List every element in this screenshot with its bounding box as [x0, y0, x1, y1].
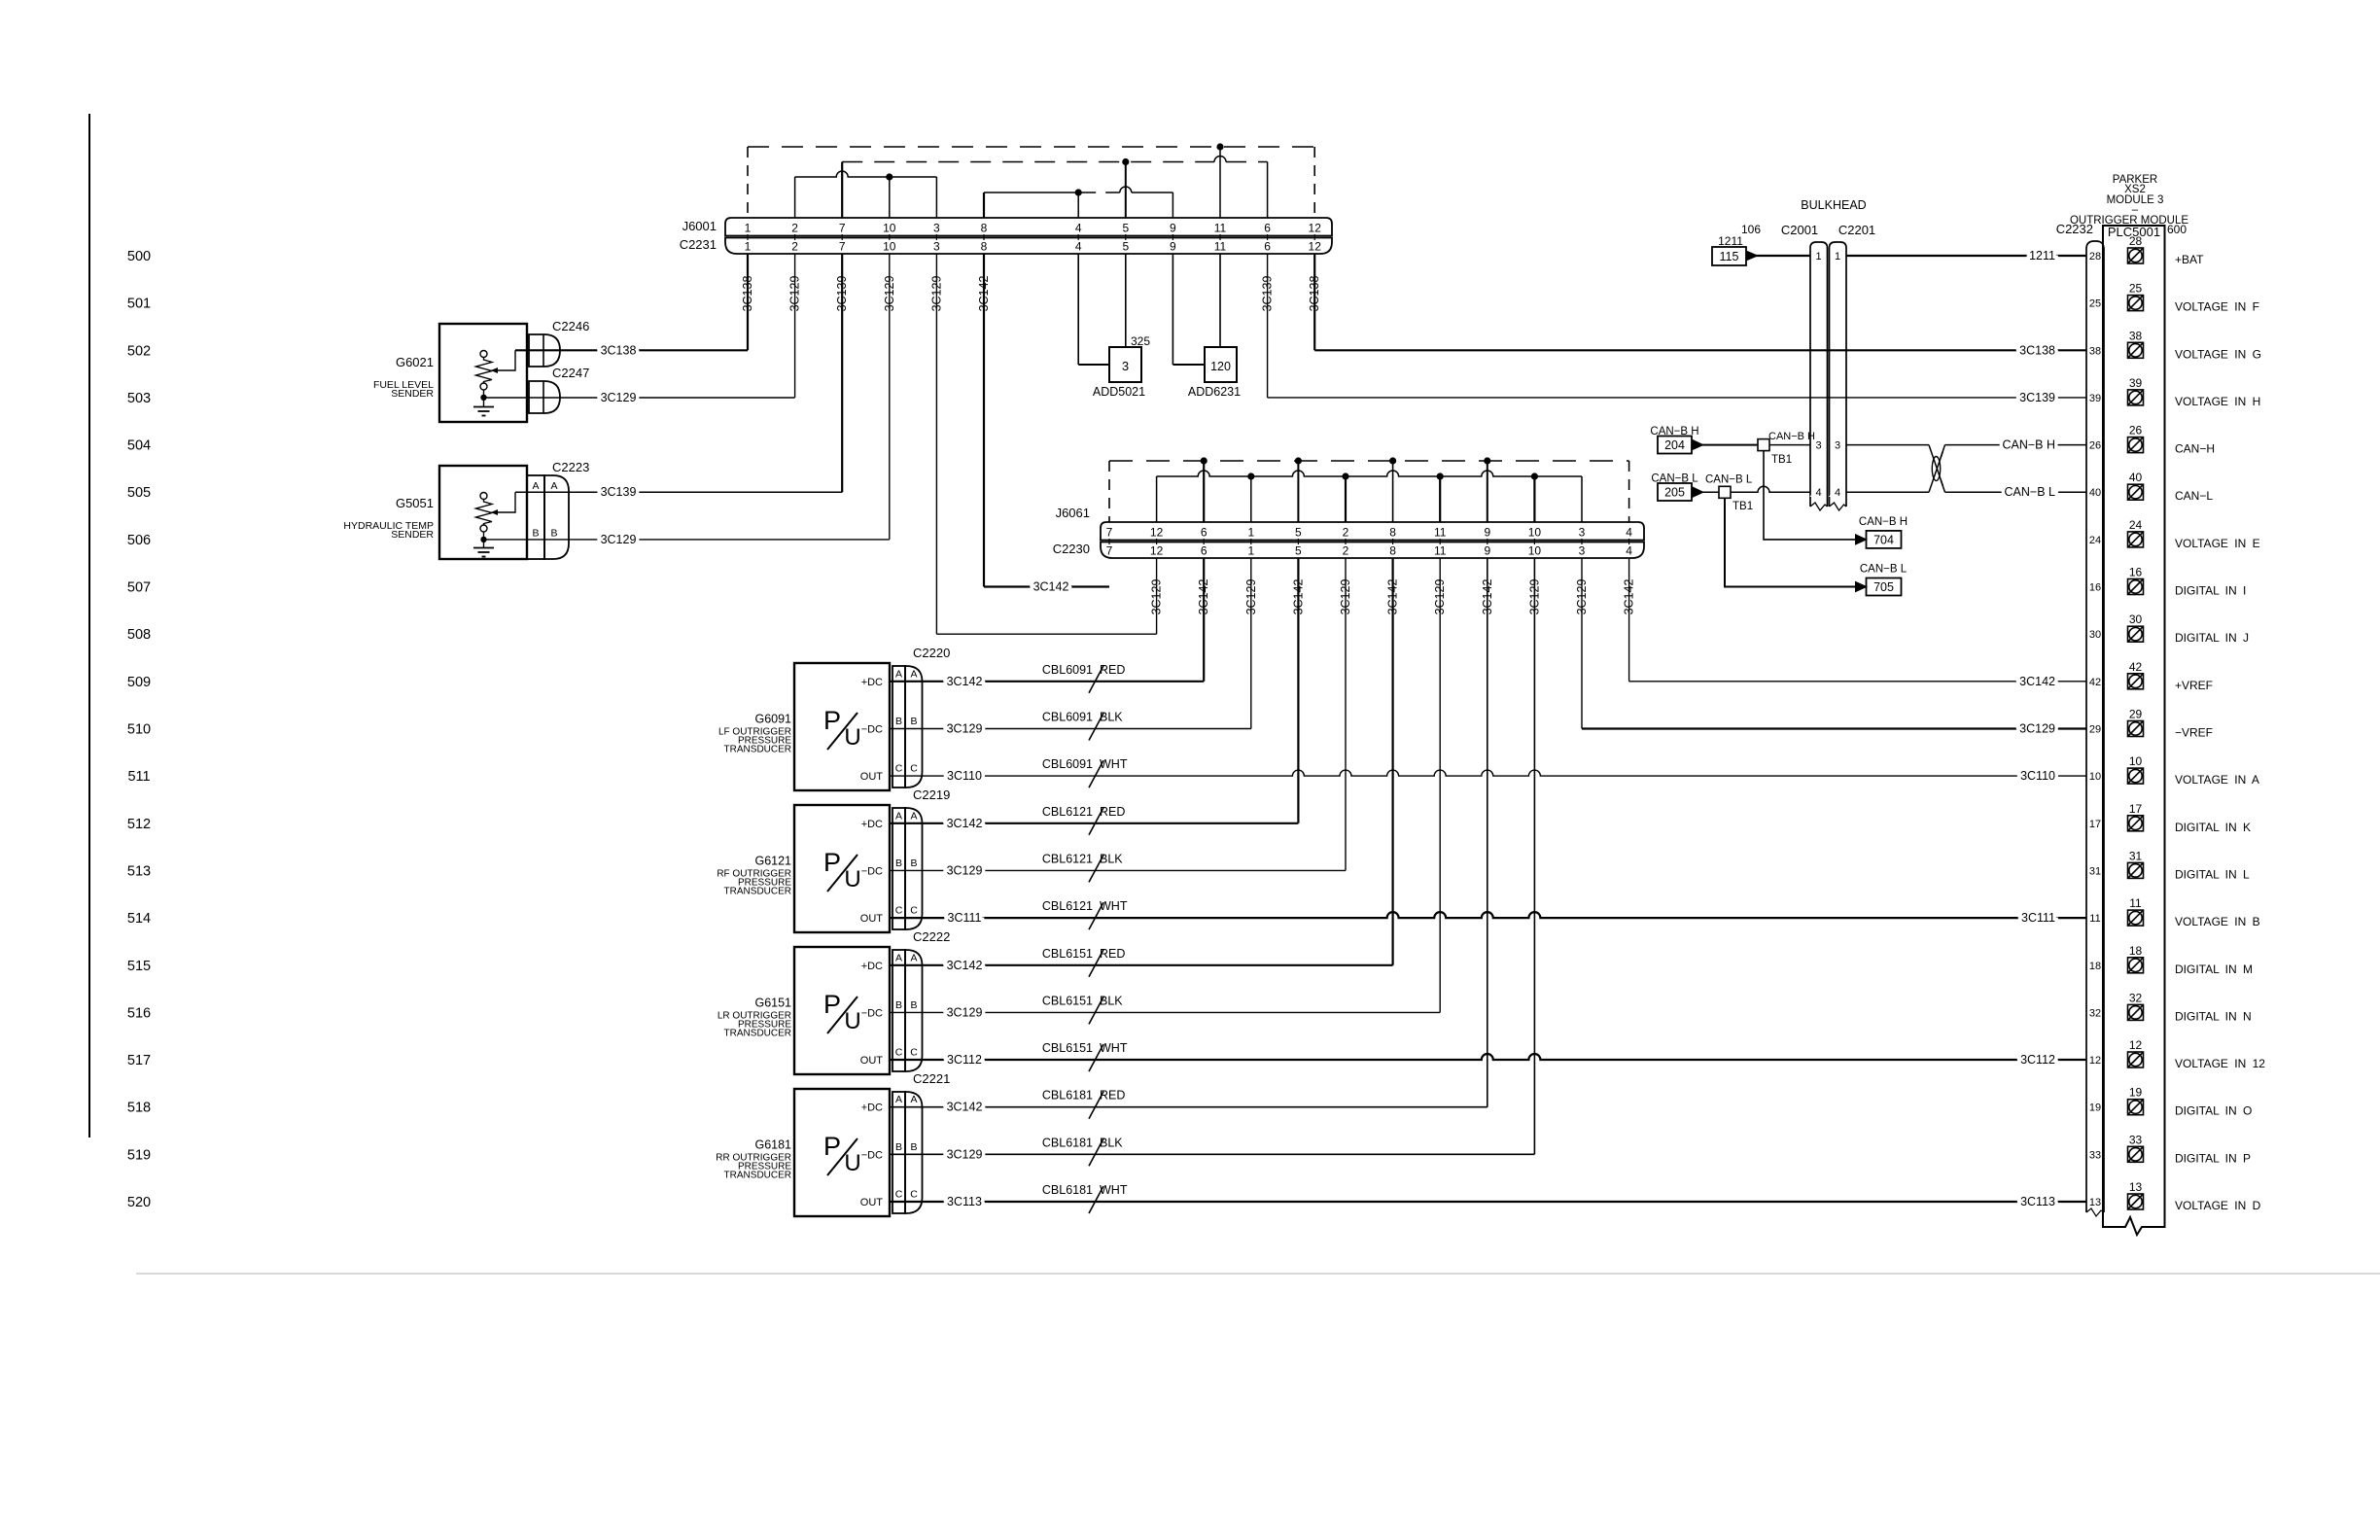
G6021 potentiometer [476, 350, 516, 398]
connector J6061/C2230 outline [1101, 522, 1644, 541]
pressure transducer G6091 box [794, 663, 890, 790]
wire 3C138 G6021 to J6001 pin1 [515, 349, 748, 351]
resistor ADD5021 (3 ohm) [1109, 347, 1141, 382]
wire 3C142 drop J6061 pin6 [1203, 558, 1205, 682]
svg-text:516: 516 [127, 1005, 151, 1021]
svg-text:3C142: 3C142 [947, 1101, 983, 1114]
svg-text:BLK: BLK [1100, 711, 1123, 724]
svg-text:1: 1 [745, 240, 752, 254]
svg-text:1: 1 [1835, 251, 1840, 262]
svg-text:1: 1 [1815, 251, 1821, 262]
svg-text:6: 6 [1201, 526, 1207, 540]
svg-text:3C129: 3C129 [1527, 579, 1541, 615]
svg-text:5: 5 [1122, 222, 1129, 235]
svg-text:OUT: OUT [860, 913, 884, 925]
svg-text:18: 18 [2129, 944, 2143, 958]
pressure transducer G6151 box [794, 947, 890, 1074]
svg-text:10: 10 [883, 222, 896, 235]
svg-text:3C129: 3C129 [2019, 722, 2055, 736]
connector C2223 shell [544, 475, 569, 559]
module PLC5001 box [2103, 226, 2165, 1235]
svg-text:A: A [910, 952, 917, 963]
shield bus line C (pins 2-3) [795, 171, 937, 177]
wire 3C142 drop J6001 pin8 to J6061 pin7 [983, 254, 985, 587]
svg-text:3: 3 [1579, 544, 1586, 558]
svg-text:J6001: J6001 [682, 219, 717, 233]
svg-text:P: P [823, 706, 841, 735]
bulkhead connector C2201 strip [1830, 242, 1847, 507]
svg-text:3C138: 3C138 [601, 343, 637, 357]
svg-text:G6121: G6121 [754, 854, 791, 867]
svg-text:40: 40 [2129, 471, 2143, 484]
svg-text:B: B [910, 857, 917, 869]
svg-text:3C112: 3C112 [2020, 1053, 2055, 1067]
svg-text:TRANSDUCER: TRANSDUCER [724, 886, 791, 896]
svg-text:9: 9 [1170, 240, 1176, 254]
svg-text:C: C [895, 763, 903, 775]
svg-text:DIGITAL IN M: DIGITAL IN M [2175, 962, 2253, 976]
svg-text:29: 29 [2129, 708, 2143, 721]
svg-text:VOLTAGE IN E: VOLTAGE IN E [2175, 537, 2260, 550]
pin mating ticks J6061/C2230 [1108, 539, 1110, 544]
wire 3C142 J6061 pin4 to module pin42 [1629, 681, 2086, 682]
svg-text:VOLTAGE IN A: VOLTAGE IN A [2175, 773, 2259, 787]
module terminal 12 (VOLTAGE IN 12) [2128, 1052, 2144, 1067]
connector C2246 shell [529, 334, 560, 367]
svg-text:514: 514 [127, 911, 151, 927]
svg-text:2: 2 [791, 240, 798, 254]
svg-text:10: 10 [1528, 544, 1542, 558]
wire 3C129 G6021 to J6001 pin2 [484, 397, 795, 399]
svg-text:32: 32 [2129, 991, 2143, 1004]
svg-text:ADD5021: ADD5021 [1093, 385, 1145, 399]
svg-text:6: 6 [1264, 222, 1271, 235]
svg-text:3C138: 3C138 [2019, 343, 2055, 357]
svg-text:501: 501 [127, 297, 151, 312]
wire 3C129 / CBL6151/BLK row 516 [890, 1011, 1440, 1013]
svg-text:10: 10 [883, 240, 896, 254]
svg-text:BLK: BLK [1100, 1136, 1123, 1149]
svg-text:G6021: G6021 [396, 355, 434, 369]
svg-text:5: 5 [1295, 544, 1302, 558]
module terminal 39 (VOLTAGE IN H) [2128, 390, 2144, 405]
shield bus line L2 (pins 12-3) [1157, 471, 1582, 476]
svg-text:505: 505 [127, 485, 151, 501]
junction dots on L2 [1247, 472, 1254, 479]
svg-text:CAN−L: CAN−L [2175, 489, 2213, 503]
svg-text:205: 205 [1664, 486, 1685, 500]
svg-text:CBL6151: CBL6151 [1042, 994, 1093, 1007]
svg-text:B: B [550, 528, 557, 540]
svg-text:12: 12 [1309, 240, 1322, 254]
svg-text:509: 509 [127, 675, 151, 690]
svg-text:3C142: 3C142 [1291, 579, 1305, 615]
wire CAN-B H twist to module pin26 [1945, 444, 2087, 446]
svg-text:4: 4 [1815, 487, 1821, 499]
svg-text:B: B [532, 528, 539, 540]
wire 3C142 / CBL6091/RED row 509 [890, 681, 1204, 682]
svg-text:1: 1 [1247, 544, 1254, 558]
shield bus line A (pins 1-12) dashed [748, 146, 1314, 148]
svg-text:3C142: 3C142 [947, 959, 983, 972]
connector C2223 pin column [527, 475, 544, 559]
module terminal 38 (VOLTAGE IN G) [2128, 342, 2144, 358]
wire 3C129 drop J6001 pin2 [794, 254, 796, 398]
wire CAN-B H bulkhead to twist [1846, 444, 1929, 446]
svg-text:−DC: −DC [861, 1007, 883, 1019]
svg-text:G5051: G5051 [396, 496, 434, 510]
svg-text:B: B [895, 716, 902, 727]
svg-text:B: B [895, 999, 902, 1011]
wire 3C110 / CBL6091/WHT row 511 [890, 770, 2086, 776]
shield stub pin 12 dashed [1313, 147, 1315, 218]
svg-text:C: C [910, 1047, 918, 1059]
svg-text:517: 517 [127, 1053, 151, 1068]
svg-text:8: 8 [981, 222, 988, 235]
svg-text:9: 9 [1170, 222, 1176, 235]
svg-text:12: 12 [2129, 1038, 2143, 1052]
module terminal 24 (VOLTAGE IN E) [2128, 532, 2144, 547]
svg-text:3C129: 3C129 [947, 863, 983, 877]
svg-text:G6151: G6151 [754, 996, 791, 1009]
pin mating ticks J6001/C2231 [747, 234, 749, 240]
svg-text:DIGITAL IN O: DIGITAL IN O [2175, 1104, 2252, 1118]
svg-text:B: B [910, 1141, 917, 1153]
svg-text:9: 9 [1484, 526, 1490, 540]
svg-text:3: 3 [933, 240, 940, 254]
svg-text:1: 1 [745, 222, 752, 235]
connector C2219 shell [905, 808, 923, 929]
svg-text:U: U [844, 1008, 860, 1034]
junction dot pin 11 on line A [1216, 143, 1223, 150]
shield bus line B (pins 7-6) dashed [842, 161, 1214, 163]
wire CAN-B L to TB1 [1701, 491, 1719, 493]
svg-text:CBL6121: CBL6121 [1042, 899, 1093, 913]
svg-text:204: 204 [1664, 438, 1685, 452]
svg-text:A: A [550, 480, 557, 492]
svg-text:C2219: C2219 [913, 787, 950, 802]
wire TB1-H drop to box 704 [1764, 451, 1855, 540]
sender G5051 box [439, 466, 527, 559]
svg-text:704: 704 [1873, 533, 1894, 546]
connector C2222 pin column [892, 950, 905, 1071]
svg-text:325: 325 [1131, 334, 1150, 348]
module terminal 29 (−VREF) [2128, 721, 2144, 737]
svg-text:3C139: 3C139 [2019, 391, 2055, 404]
wire 3C142 drop J6061 pin8 [1391, 558, 1393, 965]
svg-text:42: 42 [2089, 677, 2101, 688]
svg-text:42: 42 [2129, 660, 2143, 674]
svg-text:B: B [895, 1141, 902, 1153]
pressure transducer G6121 box [794, 805, 890, 932]
svg-text:3C129: 3C129 [1339, 579, 1352, 615]
svg-text:17: 17 [2129, 802, 2143, 816]
wire 3C138 drop J6001 pin1 [747, 254, 749, 350]
svg-text:3: 3 [1815, 440, 1821, 452]
svg-text:SENDER: SENDER [391, 388, 434, 400]
svg-text:BULKHEAD: BULKHEAD [1801, 198, 1866, 212]
svg-text:19: 19 [2129, 1086, 2143, 1100]
module terminal 25 (VOLTAGE IN F) [2128, 296, 2144, 311]
svg-text:TRANSDUCER: TRANSDUCER [724, 1170, 791, 1180]
svg-text:CBL6091: CBL6091 [1042, 757, 1093, 771]
module terminal 42 (+VREF) [2128, 674, 2144, 689]
wire 3C129 J6061 pin3 to module pin29 [1582, 727, 2086, 729]
svg-text:3C111: 3C111 [948, 911, 982, 925]
wire 3C129 / CBL6181/BLK row 519 [890, 1153, 1534, 1155]
svg-text:C2246: C2246 [552, 319, 589, 333]
svg-text:3C129: 3C129 [883, 276, 896, 312]
svg-text:4: 4 [1626, 526, 1632, 540]
svg-text:A: A [532, 480, 539, 492]
svg-text:12: 12 [1150, 526, 1164, 540]
shield stub J6061 pin4 dashed [1628, 461, 1630, 522]
module terminal 26 (CAN−H) [2128, 437, 2144, 453]
svg-text:CBL6181: CBL6181 [1042, 1136, 1093, 1149]
svg-text:26: 26 [2089, 440, 2101, 452]
svg-text:A: A [895, 952, 902, 963]
shield stubs above J6001 [841, 162, 843, 219]
svg-text:3C139: 3C139 [835, 276, 849, 312]
wire CAN-B H TB1 to bulkhead pin3 [1769, 444, 1810, 446]
svg-text:TB1: TB1 [1771, 454, 1792, 466]
svg-text:A: A [910, 810, 917, 822]
svg-text:519: 519 [127, 1147, 151, 1163]
module terminal 33 (DIGITAL IN P) [2128, 1146, 2144, 1162]
svg-text:3C142: 3C142 [1481, 579, 1494, 615]
wire 3C129 drop J6061 pin12 [1156, 558, 1158, 634]
svg-text:BLK: BLK [1100, 994, 1123, 1007]
svg-text:BLK: BLK [1100, 852, 1123, 865]
svg-text:A: A [910, 668, 917, 680]
svg-text:16: 16 [2129, 566, 2143, 579]
svg-text:CBL6121: CBL6121 [1042, 805, 1093, 819]
svg-text:C2201: C2201 [1838, 223, 1875, 237]
svg-text:4: 4 [1075, 222, 1082, 235]
svg-text:C: C [895, 905, 903, 917]
svg-text:3C139: 3C139 [1261, 276, 1275, 312]
svg-text:3C142: 3C142 [1197, 579, 1210, 615]
wire 3C142 / CBL6181/RED row 518 [890, 1106, 1487, 1108]
svg-text:CAN−B H: CAN−B H [1768, 431, 1815, 442]
svg-text:2: 2 [791, 222, 798, 235]
svg-text:30: 30 [2129, 612, 2143, 626]
svg-text:31: 31 [2129, 849, 2143, 862]
wire TB1-L drop to box 705 [1725, 498, 1855, 586]
svg-text:−VREF: −VREF [2175, 726, 2213, 740]
svg-text:DIGITAL IN K: DIGITAL IN K [2175, 821, 2251, 834]
module terminal 17 (DIGITAL IN K) [2128, 816, 2144, 831]
svg-text:RED: RED [1100, 947, 1125, 961]
svg-text:C2222: C2222 [913, 929, 950, 944]
wire 3C129 drop J6061 pin10 [1533, 558, 1535, 1154]
left drawing border line [88, 114, 90, 1137]
shield bus line L1 (pins 7-4) dashed [1109, 460, 1629, 462]
svg-text:C: C [895, 1047, 903, 1059]
wire 3C139 G5051-A to J6001 pin7 [515, 491, 842, 493]
terminal TB1 (CAN-B L) [1719, 486, 1731, 498]
svg-text:3C111: 3C111 [2021, 911, 2055, 925]
svg-text:A: A [895, 1094, 902, 1105]
junction dot pin 10 on line C [886, 173, 892, 180]
svg-text:+BAT: +BAT [2175, 253, 2204, 266]
svg-text:10: 10 [2089, 771, 2101, 783]
svg-text:40: 40 [2089, 487, 2101, 499]
svg-text:C2223: C2223 [552, 460, 589, 474]
svg-text:CAN−B L: CAN−B L [2005, 485, 2056, 499]
svg-text:B: B [895, 857, 902, 869]
wire 3C138 drop J6001 pin12 to module pin38 [1313, 254, 1315, 350]
shield stub pin 1 dashed [747, 147, 749, 218]
svg-text:3C129: 3C129 [788, 276, 802, 312]
svg-text:P: P [823, 848, 841, 877]
wire 3C129 G5051-B to J6001 pin10 [484, 539, 890, 541]
svg-text:+DC: +DC [861, 819, 883, 830]
ground symbol G5051 [473, 540, 494, 557]
svg-text:115: 115 [1720, 250, 1739, 263]
svg-text:4: 4 [1626, 544, 1632, 558]
svg-text:A: A [895, 810, 902, 822]
wire CAN-B L twist to module pin40 [1945, 491, 2087, 493]
svg-text:C2232: C2232 [2056, 222, 2093, 236]
svg-text:B: B [910, 999, 917, 1011]
junction dot G5051 ground lead [480, 537, 486, 542]
svg-text:18: 18 [2089, 961, 2101, 972]
svg-text:11: 11 [1434, 526, 1447, 540]
wire 3C142 drop J6061 pin9 [1487, 558, 1488, 1107]
svg-text:7: 7 [1106, 544, 1113, 558]
connector C2221 shell [905, 1092, 923, 1213]
svg-text:A: A [895, 668, 902, 680]
svg-text:3C129: 3C129 [947, 1147, 983, 1161]
svg-text:13: 13 [2129, 1180, 2143, 1194]
svg-text:CAN−B H: CAN−B H [1859, 516, 1907, 528]
svg-text:510: 510 [127, 722, 151, 738]
svg-text:WHT: WHT [1100, 1041, 1128, 1055]
svg-text:3C129: 3C129 [1150, 579, 1164, 615]
svg-text:VOLTAGE IN B: VOLTAGE IN B [2175, 915, 2260, 928]
svg-text:C2001: C2001 [1781, 223, 1818, 237]
svg-text:10: 10 [2129, 754, 2143, 768]
wire 3C142 / CBL6151/RED row 515 [890, 964, 1393, 966]
svg-text:33: 33 [2089, 1149, 2101, 1161]
wire 3C129 drop J6061 pin3 [1581, 558, 1583, 729]
svg-text:WHT: WHT [1100, 1183, 1128, 1197]
svg-text:3C142: 3C142 [1033, 580, 1069, 594]
svg-text:28: 28 [2089, 251, 2101, 262]
wire 3C142 drop J6061 pin4 [1628, 558, 1630, 682]
wire CAN-B L bulkhead to twist [1846, 491, 1929, 493]
svg-text:3C110: 3C110 [2020, 769, 2055, 783]
svg-text:3C142: 3C142 [947, 817, 983, 830]
wire 3C139 drop J6001 pin7 [841, 254, 843, 492]
svg-text:515: 515 [127, 959, 151, 974]
svg-text:U: U [844, 1150, 860, 1176]
svg-text:OUT: OUT [860, 1055, 884, 1067]
svg-text:11: 11 [1434, 544, 1447, 558]
module terminal 11 (VOLTAGE IN B) [2128, 910, 2144, 926]
svg-text:33: 33 [2129, 1133, 2143, 1146]
svg-text:3C139: 3C139 [601, 485, 637, 499]
svg-text:3C138: 3C138 [1308, 276, 1321, 312]
svg-text:3: 3 [1579, 526, 1586, 540]
svg-text:39: 39 [2089, 393, 2101, 404]
junction dot at sender ground lead [480, 395, 486, 401]
svg-text:CBL6151: CBL6151 [1042, 1041, 1093, 1055]
svg-text:DIGITAL IN I: DIGITAL IN I [2175, 584, 2246, 598]
svg-text:106: 106 [1741, 223, 1761, 236]
svg-text:DIGITAL IN N: DIGITAL IN N [2175, 1009, 2252, 1023]
wire 3C129 / CBL6091/BLK row 510 [890, 728, 1251, 730]
wire 1211 bulkhead to module pin28 [1846, 255, 2086, 257]
svg-text:C: C [895, 1189, 903, 1201]
svg-text:VOLTAGE IN D: VOLTAGE IN D [2175, 1199, 2261, 1212]
svg-text:CAN−H: CAN−H [2175, 442, 2215, 456]
svg-text:CBL6091: CBL6091 [1042, 663, 1093, 677]
svg-text:31: 31 [2089, 865, 2101, 877]
svg-text:38: 38 [2089, 345, 2101, 357]
svg-text:WHT: WHT [1100, 757, 1128, 771]
svg-text:513: 513 [127, 863, 151, 879]
svg-text:7: 7 [1106, 526, 1113, 540]
svg-text:WHT: WHT [1100, 899, 1128, 913]
svg-text:ADD6231: ADD6231 [1188, 385, 1241, 399]
module terminal 40 (CAN−L) [2128, 484, 2144, 500]
svg-text:C2247: C2247 [552, 366, 589, 380]
module terminal 18 (DIGITAL IN M) [2128, 958, 2144, 973]
wire 3C113 / CBL6181/WHT row 520 [890, 1201, 2086, 1203]
svg-text:TRANSDUCER: TRANSDUCER [724, 1028, 791, 1038]
svg-text:VOLTAGE IN G: VOLTAGE IN G [2175, 347, 2261, 361]
svg-text:6: 6 [1201, 544, 1207, 558]
twisted pair symbol [1929, 445, 1943, 486]
svg-text:3C142: 3C142 [2019, 675, 2055, 688]
svg-text:3C129: 3C129 [1433, 579, 1447, 615]
svg-text:5: 5 [1122, 240, 1129, 254]
svg-text:4: 4 [1075, 240, 1082, 254]
connector C2220 pin column [892, 666, 905, 787]
svg-text:503: 503 [127, 391, 151, 406]
svg-text:518: 518 [127, 1101, 151, 1116]
connector C2232 strip [2086, 241, 2104, 1212]
svg-text:120: 120 [1210, 360, 1231, 373]
module terminal 19 (DIGITAL IN O) [2128, 1100, 2144, 1115]
svg-text:11: 11 [1214, 240, 1227, 254]
wire 3C112 / CBL6151/WHT row 517 [890, 1054, 2086, 1060]
wire 3C129 drop J6001 pin3 to J6061 pin12 [935, 254, 937, 634]
svg-text:3C113: 3C113 [947, 1195, 982, 1208]
svg-text:3C113: 3C113 [2020, 1195, 2055, 1208]
svg-text:CAN−B L: CAN−B L [1860, 564, 1907, 576]
svg-text:5: 5 [1295, 526, 1302, 540]
svg-text:CBL6091: CBL6091 [1042, 711, 1093, 724]
svg-text:12: 12 [2089, 1055, 2101, 1067]
connector C2220 shell [905, 666, 923, 787]
svg-text:VOLTAGE IN H: VOLTAGE IN H [2175, 395, 2260, 408]
svg-text:11: 11 [2129, 896, 2142, 910]
svg-text:U: U [844, 724, 860, 751]
svg-text:3C142: 3C142 [1386, 579, 1400, 615]
wire CAN-B H to TB1 [1701, 444, 1758, 446]
svg-text:VOLTAGE IN F: VOLTAGE IN F [2175, 300, 2259, 314]
wire CAN-B L TB1 to bulkhead pin4 (hop over TB1-H drop) [1731, 486, 1810, 492]
module terminal 13 (VOLTAGE IN D) [2128, 1194, 2144, 1209]
connector C2219 pin column [892, 808, 905, 929]
svg-text:508: 508 [127, 627, 151, 643]
svg-text:RED: RED [1100, 663, 1125, 677]
svg-text:DIGITAL IN L: DIGITAL IN L [2175, 867, 2250, 881]
svg-text:CBL6181: CBL6181 [1042, 1089, 1093, 1102]
